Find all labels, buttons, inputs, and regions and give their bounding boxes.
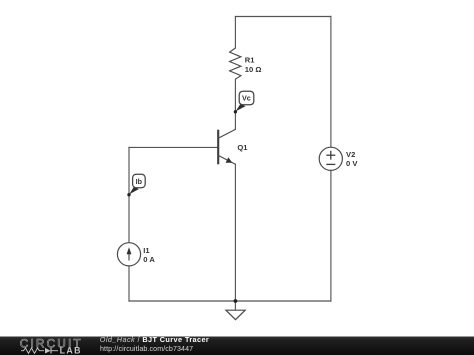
wire left lower (I1 bottom to bottom corner) — [128, 266, 130, 301]
svg-text:Old_Hack / BJT Curve Tracer: Old_Hack / BJT Curve Tracer — [100, 335, 209, 344]
wire emitter lead down — [234, 164, 236, 301]
svg-text:0 V: 0 V — [346, 159, 358, 168]
Vc pointer — [236, 104, 246, 112]
svg-text:I1: I1 — [143, 246, 150, 255]
wire right upper (top corner to V2 top) — [330, 17, 332, 148]
svg-text:LAB: LAB — [60, 346, 82, 355]
current source I1 — [117, 243, 140, 266]
svg-text:V2: V2 — [346, 150, 355, 159]
Ib label box — [133, 174, 146, 187]
svg-text:http://circuitlab.com/cb73447: http://circuitlab.com/cb73447 — [100, 345, 193, 353]
wire bottom horizontal — [129, 300, 331, 302]
svg-text:10 Ω: 10 Ω — [245, 65, 262, 74]
voltage source V2 — [319, 147, 342, 170]
base bar — [217, 130, 219, 165]
emitter arrowhead — [226, 157, 233, 163]
svg-text:Ib: Ib — [136, 177, 143, 186]
ground — [226, 310, 245, 319]
emitter diagonal — [218, 155, 235, 164]
logo diode — [45, 348, 51, 354]
wire top horizontal — [235, 16, 331, 18]
resistor R1 — [230, 48, 241, 79]
wire collector lead (resistor bottom through Vc node) — [234, 79, 236, 129]
node Vc dot — [234, 110, 237, 113]
transistor Q1 — [218, 129, 235, 164]
svg-text:Q1: Q1 — [237, 143, 248, 152]
svg-text:Vc: Vc — [242, 94, 251, 103]
wire left upper (base corner down to I1 top) — [128, 147, 130, 242]
wire base horizontal — [129, 146, 218, 148]
wire right lower (V2 bottom to bottom corner) — [330, 170, 332, 301]
logo resistor zigzag — [21, 348, 44, 353]
collector diagonal — [218, 129, 235, 138]
junction dot (emitter/ground/bottom wire) — [234, 299, 238, 303]
ground stub — [234, 301, 236, 310]
node Ib dot — [127, 193, 130, 196]
Vc label box — [239, 91, 254, 105]
Ib pointer — [129, 187, 139, 195]
wire resistor top lead — [234, 17, 236, 49]
svg-text:0 A: 0 A — [143, 255, 155, 264]
svg-text:R1: R1 — [245, 56, 255, 65]
